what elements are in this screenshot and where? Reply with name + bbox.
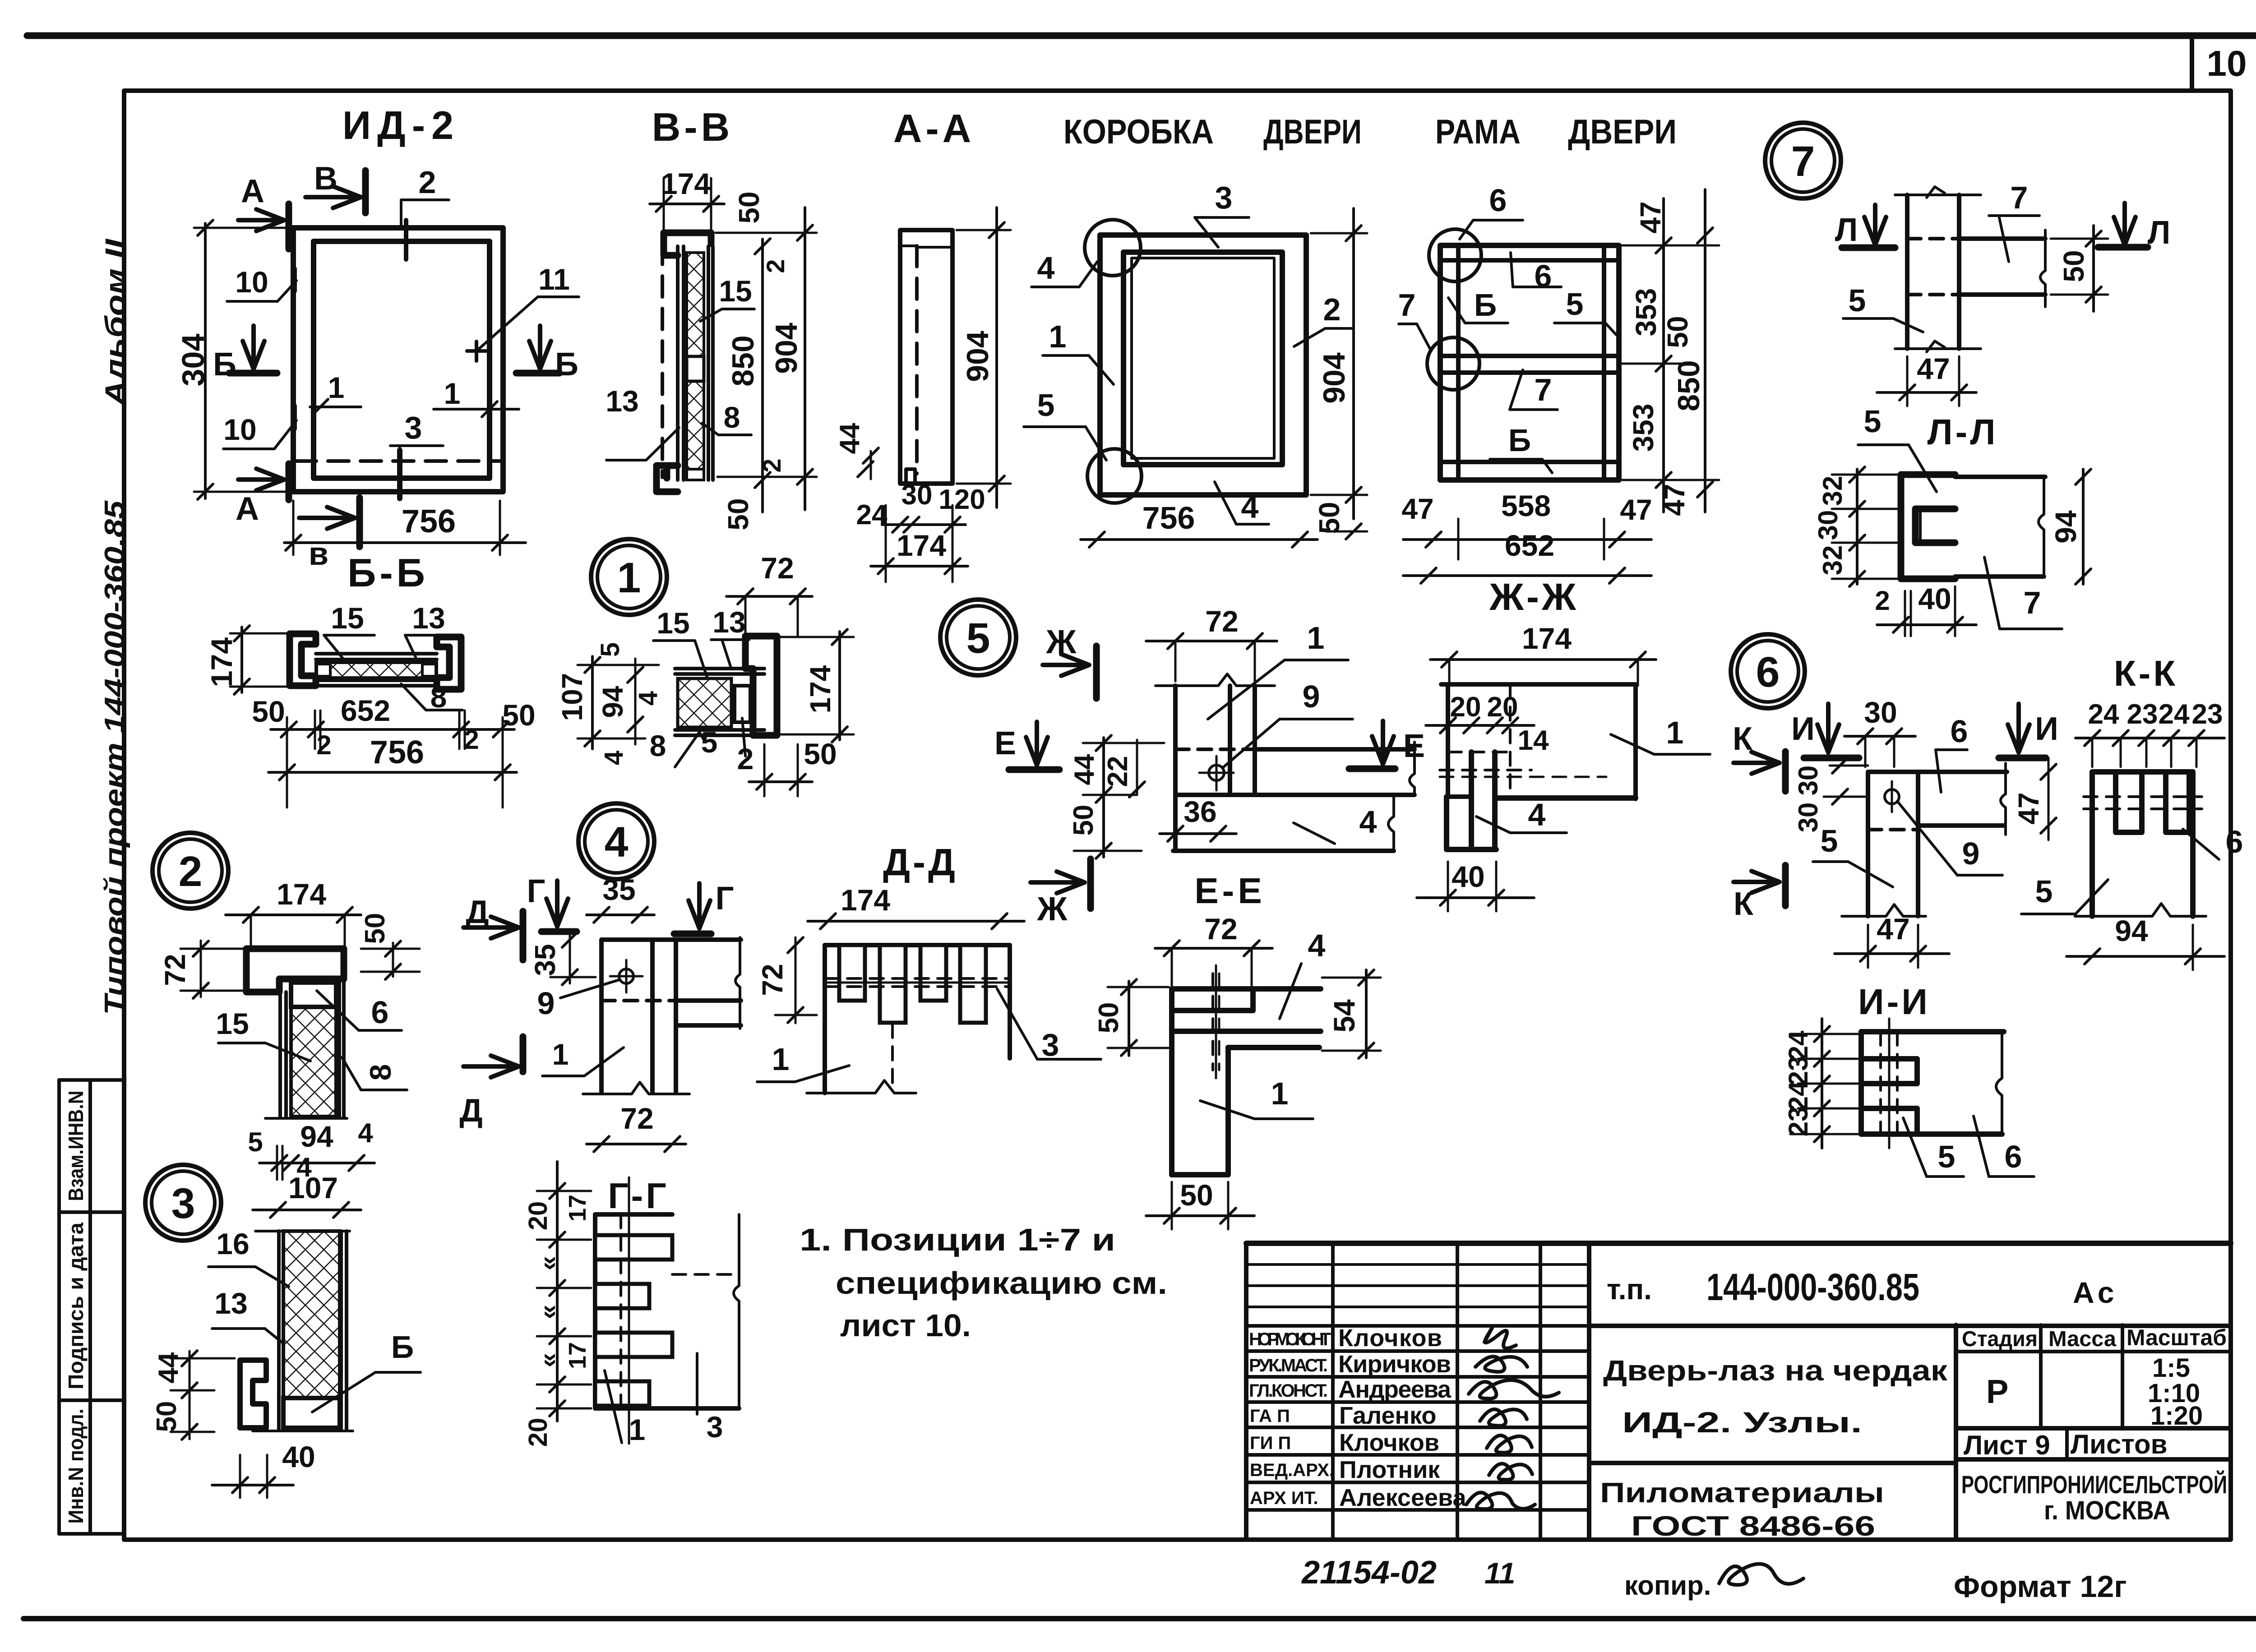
- svg-text:54: 54: [1327, 999, 1361, 1033]
- node 6 callout circle: [1731, 634, 1805, 708]
- label 13: [711, 605, 749, 668]
- leaf right face: [707, 246, 710, 480]
- dim 304 left: [176, 220, 298, 499]
- svg-text:50: 50: [1313, 502, 1345, 534]
- label 15: [324, 601, 374, 660]
- svg-text:50: 50: [502, 698, 535, 732]
- svg-text:4: 4: [605, 818, 629, 866]
- svg-text:24: 24: [2088, 699, 2119, 730]
- svg-text:174: 174: [897, 529, 946, 562]
- right dim chain 47 353 353 47: [1622, 198, 1719, 516]
- label 9: [1897, 801, 2002, 875]
- leaf left face lines: [278, 992, 282, 1117]
- comb profile: [595, 1214, 739, 1408]
- svg-text:15: 15: [331, 601, 364, 635]
- svg-text:13: 13: [606, 384, 638, 418]
- label 7 left outside: [1398, 287, 1431, 351]
- label 3: [697, 1353, 723, 1444]
- marker Л right: [2098, 203, 2170, 251]
- screw: [1885, 781, 1899, 812]
- svg-text:3: 3: [405, 410, 422, 445]
- svg-text:50: 50: [360, 913, 391, 944]
- svg-text:15: 15: [656, 606, 689, 640]
- dim 174: [226, 877, 361, 946]
- svg-text:1. Позиции 1÷7 и: 1. Позиции 1÷7 и: [800, 1222, 1115, 1257]
- label 2: [737, 718, 754, 775]
- leaf top boundary: [255, 1230, 350, 1232]
- svg-text:4: 4: [599, 751, 629, 765]
- svg-text:5: 5: [1566, 286, 1584, 322]
- svg-text:ИД-2: ИД-2: [342, 103, 460, 148]
- svg-text:Б-Б: Б-Б: [347, 550, 429, 595]
- label 1 left: [1043, 319, 1114, 384]
- svg-text:47: 47: [1658, 484, 1691, 516]
- svg-text:50: 50: [733, 191, 765, 223]
- label 7: [1984, 557, 2062, 629]
- middle key: [687, 356, 704, 381]
- top rail box: [291, 983, 336, 1007]
- left edge below: [1173, 795, 1178, 851]
- dim 54 right: [1322, 970, 1381, 1058]
- leaf face lines: [676, 246, 680, 480]
- svg-text:«: «: [533, 1353, 563, 1367]
- svg-text:Б: Б: [1474, 287, 1497, 323]
- label 3: [1195, 180, 1249, 247]
- svg-text:15: 15: [216, 1007, 249, 1040]
- svg-text:А-А: А-А: [893, 106, 975, 151]
- svg-text:Лист 9: Лист 9: [1964, 1430, 2050, 1460]
- svg-text:107: 107: [288, 1171, 338, 1204]
- svg-text:Андреева: Андреева: [1338, 1376, 1452, 1403]
- svg-text:И: И: [2035, 711, 2058, 747]
- label Б: [312, 1329, 421, 1412]
- svg-text:850: 850: [726, 335, 760, 386]
- marker Е left: [994, 722, 1059, 770]
- jamb profile: [900, 230, 952, 484]
- marker Г top: [527, 873, 577, 932]
- label 1: [542, 1038, 624, 1076]
- svg-text:2: 2: [1323, 292, 1341, 327]
- svg-text:Б: Б: [213, 346, 236, 383]
- section marker в bottom: [299, 498, 360, 572]
- hidden edge dashed: [296, 459, 501, 463]
- label 6 inner: [1511, 253, 1561, 294]
- svg-text:«: «: [533, 1256, 563, 1270]
- dim 72 rotated: [756, 937, 817, 1023]
- svg-text:756: 756: [370, 734, 424, 771]
- label 7 middle: [1510, 370, 1558, 410]
- svg-text:6: 6: [2226, 824, 2243, 859]
- middle rail: [1440, 354, 1619, 358]
- svg-text:23: 23: [1783, 1107, 1813, 1137]
- marker Л left: [1835, 205, 1895, 248]
- bottom boundary: [1895, 347, 1981, 350]
- svg-text:В-В: В-В: [652, 105, 733, 149]
- svg-text:ГА П: ГА П: [1250, 1406, 1290, 1426]
- door leaf inner rect: [314, 241, 490, 478]
- label 2: [401, 165, 449, 259]
- svg-text:2: 2: [316, 730, 331, 760]
- label 5: [1858, 404, 1937, 492]
- signature table rows: [1246, 1263, 1589, 1266]
- svg-text:И: И: [1791, 711, 1815, 747]
- svg-text:Р: Р: [1986, 1373, 2008, 1410]
- hidden rail dashed: [1907, 237, 1959, 240]
- rail right end upper: [1410, 742, 1415, 795]
- svg-text:14: 14: [1518, 725, 1549, 756]
- label 4: [1476, 797, 1567, 833]
- svg-text:174: 174: [661, 167, 711, 200]
- svg-text:Л-Л: Л-Л: [1928, 412, 1998, 452]
- stile plan lines: [1905, 195, 1909, 349]
- dim 72 top: [1146, 605, 1277, 681]
- bottom dims 5 94 4 4: [248, 1118, 374, 1182]
- top notch line: [917, 246, 952, 249]
- dim 50 node1: [749, 737, 837, 796]
- box outer rect: [1100, 235, 1306, 495]
- corner profile: [1172, 989, 1321, 1175]
- svg-text:50: 50: [1180, 1178, 1213, 1212]
- svg-text:353: 353: [1630, 288, 1662, 337]
- dim 36: [1160, 795, 1236, 841]
- label 3: [390, 410, 443, 498]
- svg-text:АРХ ИТ.: АРХ ИТ.: [1250, 1488, 1318, 1508]
- label 2: [1294, 292, 1351, 346]
- dim 904 right: [1311, 208, 1367, 519]
- svg-text:32: 32: [1817, 545, 1848, 576]
- box inner second line: [1132, 258, 1274, 458]
- marker Е right: [1349, 721, 1425, 769]
- comb profile И-И: [1861, 1032, 2004, 1134]
- bottom key: [687, 469, 704, 480]
- svg-text:ГИ П: ГИ П: [1250, 1433, 1291, 1453]
- leaf right face lines: [339, 1231, 343, 1430]
- dims 20 20: [1426, 692, 1534, 733]
- svg-text:копир.: копир.: [1624, 1570, 1711, 1601]
- label 8: [702, 401, 751, 435]
- svg-text:4: 4: [1037, 250, 1055, 286]
- signatures squiggles: [1466, 1327, 1559, 1509]
- section marker Б right: [516, 326, 578, 383]
- svg-text:30: 30: [1793, 803, 1823, 833]
- svg-text:«: «: [533, 1305, 563, 1319]
- svg-text:904: 904: [769, 323, 804, 374]
- svg-text:174: 174: [205, 637, 238, 687]
- dims 2 40 bottom: [1875, 582, 1976, 636]
- dim 850: [726, 239, 770, 512]
- svg-text:120: 120: [938, 484, 985, 515]
- comb centerlines: [619, 1214, 622, 1408]
- tenon: [1469, 752, 1474, 849]
- left dim stack 5 4 94 4: [578, 642, 663, 765]
- label 1: [605, 1371, 645, 1446]
- right break: [2039, 477, 2044, 577]
- dim 107: [253, 1171, 361, 1218]
- label 4 left: [1031, 250, 1097, 287]
- marker И right: [1999, 704, 2058, 758]
- dim 50 node7: [2051, 226, 2108, 311]
- rail bottom: [676, 1023, 741, 1028]
- label Б lower: [1490, 423, 1552, 473]
- bottom edge: [1495, 795, 1636, 801]
- svg-text:5: 5: [1037, 388, 1055, 423]
- svg-text:904: 904: [1317, 352, 1351, 404]
- svg-text:6: 6: [1535, 258, 1552, 294]
- label 8: [401, 680, 462, 714]
- svg-text:Ас: Ас: [2073, 1276, 2118, 1309]
- board bottom line: [1955, 574, 2044, 579]
- svg-text:17: 17: [564, 1195, 591, 1222]
- svg-text:Б: Б: [555, 346, 578, 383]
- svg-text:Б: Б: [1508, 423, 1531, 458]
- svg-text:72: 72: [1205, 605, 1238, 638]
- hidden rail edge dashed: [1175, 748, 1255, 751]
- svg-text:ДВЕРИ: ДВЕРИ: [1568, 113, 1677, 151]
- svg-text:756: 756: [1142, 500, 1195, 535]
- svg-text:40: 40: [1918, 582, 1951, 615]
- marker Ж top: [1043, 623, 1096, 698]
- svg-text:5: 5: [1821, 823, 1838, 858]
- svg-text:А: А: [241, 173, 264, 209]
- svg-text:72: 72: [159, 954, 191, 986]
- label 8: [650, 729, 698, 767]
- svg-text:94: 94: [2115, 914, 2148, 947]
- label Б upper: [1448, 287, 1508, 323]
- signature table names: [1338, 1324, 1467, 1511]
- label 13: [212, 1287, 283, 1343]
- svg-text:Е: Е: [994, 725, 1016, 761]
- stile plan lines: [1173, 686, 1178, 795]
- bottom bracket: [656, 466, 678, 492]
- svg-text:304: 304: [176, 334, 211, 387]
- marker К lower: [1734, 865, 1785, 922]
- label 4 bottom: [1215, 482, 1269, 525]
- svg-text:Е-Е: Е-Е: [1194, 871, 1265, 911]
- svg-text:Плотник: Плотник: [1339, 1456, 1440, 1483]
- rail right break: [735, 937, 740, 1029]
- dim 47 bottom: [1835, 912, 1949, 968]
- hidden dashed: [1879, 1032, 1882, 1134]
- svg-text:Л: Л: [1835, 212, 1858, 248]
- comb top edge: [825, 943, 1010, 947]
- dim 47 rotated right: [2012, 758, 2056, 840]
- svg-text:50: 50: [1068, 805, 1099, 836]
- right break: [1996, 1032, 2002, 1134]
- comb profile К-К: [2092, 772, 2193, 916]
- dim 756 bottom: [284, 501, 526, 555]
- svg-text:Инв.N подл.: Инв.N подл.: [64, 1409, 88, 1524]
- svg-text:17: 17: [564, 1342, 591, 1369]
- svg-text:30: 30: [901, 480, 933, 511]
- bottom break line: [265, 1117, 347, 1120]
- top boundary with break: [1156, 674, 1275, 686]
- label 5: [697, 725, 717, 759]
- page bottom border line: [23, 1616, 2256, 1621]
- svg-text:13: 13: [712, 605, 745, 639]
- label 10 lower: [223, 406, 296, 449]
- node 5 callout circle: [940, 600, 1016, 675]
- svg-text:3: 3: [1042, 1027, 1059, 1062]
- screw: [1199, 756, 1234, 790]
- jamb corner piece: [745, 636, 777, 735]
- svg-text:ВЕД.АРХ.: ВЕД.АРХ.: [1250, 1460, 1334, 1480]
- svg-text:Взам.ИНВ.N: Взам.ИНВ.N: [64, 1091, 88, 1201]
- svg-text:1: 1: [1049, 319, 1067, 354]
- dim 50 rotated right: [360, 913, 420, 979]
- profile with notch: [1901, 475, 1955, 579]
- dim 50 bottom: [1146, 1178, 1254, 1229]
- svg-text:8: 8: [724, 401, 740, 434]
- svg-text:т.п.: т.п.: [1607, 1273, 1652, 1306]
- marker Д bottom: [459, 1037, 523, 1129]
- dim 40: [1417, 860, 1534, 911]
- dims 32 30 32: [1813, 467, 1897, 586]
- label 15: [700, 274, 754, 321]
- dim 94: [2066, 914, 2224, 970]
- label 4: [1294, 804, 1377, 844]
- key slot: [735, 686, 750, 722]
- page number box: [2190, 36, 2194, 91]
- marker Ж lower-left of node5: [1031, 859, 1091, 928]
- rail lower board top: [1175, 793, 1415, 797]
- label 6 right: [2183, 824, 2243, 859]
- svg-text:16: 16: [216, 1227, 249, 1260]
- section marker А bottom: [236, 464, 289, 527]
- svg-text:50: 50: [804, 737, 837, 771]
- svg-text:47: 47: [1877, 912, 1909, 946]
- bottom break: [807, 1080, 916, 1093]
- svg-text:50: 50: [252, 695, 285, 728]
- corner detail circle bottom-left (node 5 callout): [1087, 449, 1142, 503]
- svg-text:30: 30: [1864, 696, 1897, 729]
- svg-text:850: 850: [1672, 360, 1706, 411]
- marker К upper: [1733, 721, 1785, 791]
- svg-text:А: А: [236, 491, 259, 527]
- svg-text:3: 3: [707, 1410, 723, 1444]
- svg-text:9: 9: [1303, 679, 1320, 714]
- svg-text:107: 107: [556, 673, 588, 721]
- dim 174 top: [650, 167, 724, 230]
- label 1 left: [310, 371, 361, 415]
- label 6: [317, 991, 402, 1030]
- label 5: [1813, 823, 1893, 887]
- svg-text:652: 652: [341, 694, 390, 727]
- centerline: [1215, 965, 1217, 1078]
- svg-text:Дверь-лаз на чердак: Дверь-лаз на чердак: [1603, 1354, 1948, 1387]
- dim 50 left: [1093, 979, 1169, 1056]
- svg-text:5: 5: [701, 725, 718, 759]
- svg-text:Подпись и дата: Подпись и дата: [64, 1223, 88, 1389]
- corner circle middle-left (node 7 callout): [1427, 337, 1479, 390]
- svg-text:1: 1: [617, 554, 641, 602]
- svg-text:НОРМОКОНТ: НОРМОКОНТ: [1249, 1329, 1331, 1349]
- svg-text:КОРОБКА: КОРОБКА: [1063, 113, 1214, 151]
- bottom rail box: [283, 1398, 340, 1428]
- rail right break: [2040, 230, 2045, 307]
- dims 24 23 24 23: [2076, 699, 2224, 767]
- svg-text:1:20: 1:20: [2150, 1401, 2203, 1431]
- top bracket: [664, 233, 711, 255]
- hidden dashed lines: [825, 977, 1010, 980]
- svg-text:Листов: Листов: [2071, 1429, 2167, 1459]
- svg-text:174: 174: [277, 877, 326, 911]
- dim 72 bottom: [587, 1102, 686, 1152]
- marker Г right: [674, 881, 734, 934]
- svg-text:Д: Д: [459, 1093, 482, 1129]
- dim 72: [726, 551, 812, 637]
- svg-text:Масштаб: Масштаб: [2127, 1325, 2227, 1350]
- sandwich top lines: [675, 667, 764, 670]
- svg-text:Галенко: Галенко: [1339, 1402, 1436, 1429]
- label 4: [1280, 928, 1326, 1019]
- svg-text:1: 1: [772, 1042, 790, 1077]
- insulation hatch: [291, 1007, 336, 1117]
- insulation hatch: [283, 1231, 340, 1398]
- right bracket profile: [437, 637, 461, 689]
- lower board right break: [1388, 795, 1394, 851]
- label 5: [1843, 283, 1923, 332]
- svg-text:35: 35: [602, 873, 635, 906]
- svg-text:7: 7: [2011, 180, 2028, 215]
- section marker В top: [305, 161, 365, 213]
- svg-text:Е: Е: [1403, 728, 1425, 764]
- svg-text:РОСГИПРОНИИСЕЛЬСТРОЙ: РОСГИПРОНИИСЕЛЬСТРОЙ: [1961, 1470, 2227, 1499]
- svg-text:10: 10: [2207, 43, 2247, 83]
- label 15: [653, 606, 707, 678]
- svg-text:4: 4: [358, 1118, 373, 1148]
- rail solid top: [679, 998, 741, 1003]
- svg-text:8: 8: [650, 729, 666, 762]
- svg-text:7: 7: [1791, 138, 1815, 185]
- svg-text:50: 50: [1093, 1002, 1124, 1034]
- svg-text:94: 94: [2049, 510, 2082, 544]
- label 13: [606, 384, 679, 460]
- svg-text:1: 1: [328, 371, 345, 404]
- left sidebar table: [59, 1080, 124, 1534]
- label 9 + screw: [537, 960, 643, 1021]
- svg-text:40: 40: [1452, 860, 1484, 893]
- bottom dim 652: [1403, 529, 1651, 583]
- svg-text:Киричков: Киричков: [1338, 1351, 1451, 1378]
- label 5: [1903, 1118, 1964, 1177]
- svg-text:К-К: К-К: [2114, 653, 2178, 693]
- hidden rail dashed: [601, 999, 679, 1002]
- corner detail circle top-left (node 4 callout): [1085, 220, 1141, 276]
- left bracket profile: [290, 634, 316, 686]
- node 3 callout circle: [145, 1165, 221, 1241]
- svg-text:32: 32: [1817, 476, 1848, 506]
- svg-text:174: 174: [1522, 622, 1572, 655]
- insulation hatch lower: [687, 381, 704, 469]
- svg-text:5: 5: [596, 642, 625, 657]
- copier signature squiggle: [1719, 1564, 1803, 1585]
- svg-text:1: 1: [1666, 715, 1684, 750]
- title block outer: [1246, 1241, 2231, 1246]
- svg-text:44: 44: [834, 423, 865, 454]
- bottom dims 47 558 47: [1401, 489, 1652, 559]
- top boundary: [1895, 194, 1981, 196]
- svg-text:6: 6: [1756, 648, 1780, 696]
- dim 756 line: [268, 717, 517, 808]
- dims 30 30 rotated: [1793, 758, 1868, 832]
- svg-text:Ж: Ж: [1037, 890, 1068, 928]
- dim 174 right: [781, 629, 854, 742]
- rail top edge solid: [1255, 747, 1415, 752]
- svg-text:6: 6: [2005, 1139, 2022, 1174]
- hidden dashed: [672, 1273, 739, 1276]
- svg-text:В: В: [314, 161, 337, 197]
- right end break: [2001, 763, 2006, 835]
